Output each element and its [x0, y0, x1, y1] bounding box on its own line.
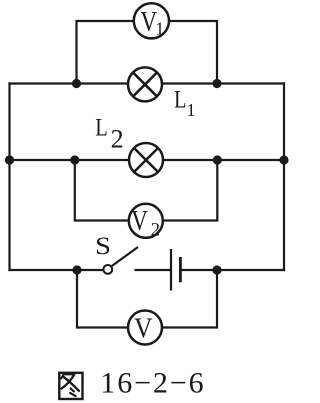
svg-text:1: 1 — [155, 18, 164, 38]
svg-text:V: V — [134, 312, 153, 344]
svg-text:16−2−6: 16−2−6 — [100, 367, 205, 400]
svg-text:2: 2 — [151, 221, 160, 241]
svg-text:L: L — [174, 86, 187, 113]
svg-text:2: 2 — [111, 124, 124, 153]
svg-text:S: S — [95, 232, 111, 260]
svg-text:L: L — [95, 114, 108, 141]
svg-text:V: V — [131, 205, 148, 237]
svg-text:1: 1 — [187, 100, 196, 120]
